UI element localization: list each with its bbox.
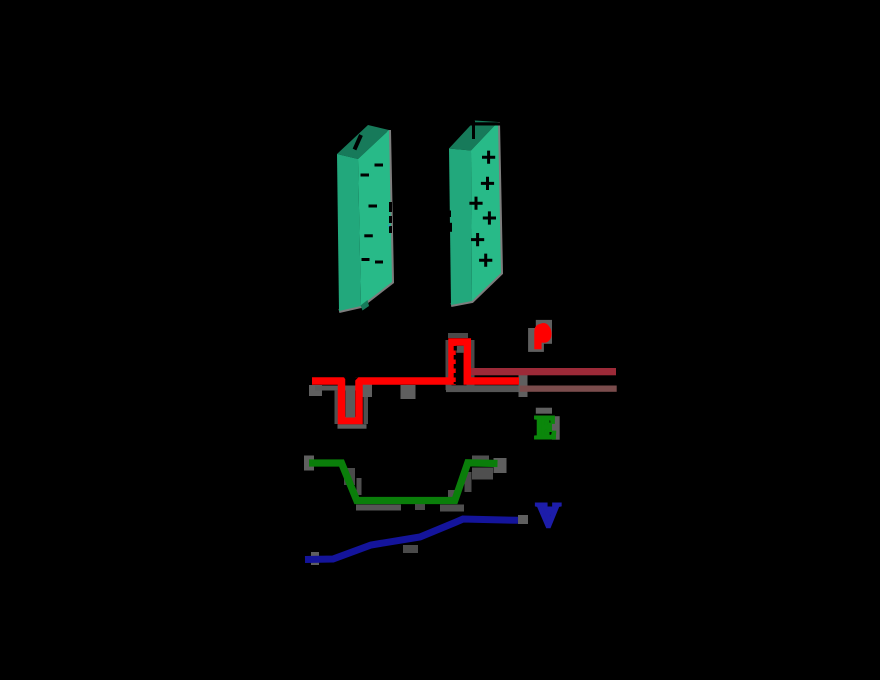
left plate bottom sliver xyxy=(361,300,370,311)
gray patch pulse left flank xyxy=(446,340,452,390)
svg-text:E: E xyxy=(535,409,556,445)
gray patch green slope left xyxy=(344,468,355,485)
gray above green right flat xyxy=(472,456,489,461)
black dash c on left plate edge xyxy=(389,226,392,233)
gray patch pulse right flank xyxy=(467,340,475,390)
gray box behind rho label upper xyxy=(536,320,552,344)
black dash a on left plate edge xyxy=(389,202,392,212)
minus sign 2 xyxy=(361,174,370,177)
black fragment b on right plate strip xyxy=(447,223,452,232)
gray patch blue mid xyxy=(403,545,418,553)
gray trough left flank xyxy=(335,390,339,424)
plus sign 6 xyxy=(479,254,492,267)
minus sign 6 xyxy=(375,261,383,264)
left plate top face xyxy=(337,125,389,159)
pulse interior gray cap xyxy=(456,346,464,353)
left plate top black mark xyxy=(355,135,362,150)
right plate side strip xyxy=(449,149,472,306)
plus sign 5 xyxy=(471,233,484,246)
gray box above E label xyxy=(536,408,552,414)
svg-text:ρ: ρ xyxy=(534,312,552,349)
trough interior gray xyxy=(346,386,356,418)
gray patch blue end xyxy=(518,515,528,524)
plus sign 1 xyxy=(482,151,495,164)
gray below green bottom right xyxy=(440,505,464,512)
right plate halo xyxy=(451,122,501,305)
pulse dashed black line xyxy=(454,346,457,384)
minus sign 1 xyxy=(375,164,384,167)
E label underlay xyxy=(538,417,550,436)
gray patch green bottom left xyxy=(356,505,401,511)
gray left of green ascent xyxy=(448,490,455,503)
gray patch after pulse under baseline xyxy=(446,385,520,392)
black dash b on left plate edge xyxy=(389,216,392,223)
minus sign 4 xyxy=(364,234,373,237)
rho axis dark line upper xyxy=(471,368,616,375)
right plate top horizontal black line xyxy=(469,122,509,125)
gray box right of E label xyxy=(552,416,560,440)
V label underlay xyxy=(541,507,555,521)
gray band under baseline left xyxy=(315,386,366,391)
gray box behind rho label lower xyxy=(528,328,544,352)
left plate halo xyxy=(339,130,392,311)
gray right of green descent xyxy=(357,478,362,495)
gray patch green bottom mid xyxy=(415,504,425,510)
left plate side strip xyxy=(337,154,361,311)
minus sign 3 xyxy=(369,205,378,208)
right plate top vertical black line xyxy=(472,121,475,139)
svg-text:V: V xyxy=(536,497,561,534)
gray patch pulse top xyxy=(448,333,468,338)
gray patch mid baseline xyxy=(360,384,372,397)
rho curve xyxy=(312,342,519,421)
minus sign 5 xyxy=(362,258,370,261)
right plate top face xyxy=(449,121,498,151)
gray patch red start xyxy=(309,385,322,396)
rho label underlay xyxy=(537,323,551,340)
trough top black notch xyxy=(344,377,359,384)
gray patch green end xyxy=(494,458,507,473)
E curve xyxy=(309,463,498,501)
right plate front face xyxy=(471,122,501,301)
plus sign 4 xyxy=(483,211,496,224)
gray below green right flat xyxy=(472,468,493,480)
rho axis dark line lower xyxy=(520,386,617,392)
black fragment a on right plate strip xyxy=(447,211,451,218)
gray patch red end xyxy=(519,372,528,397)
plus sign 2 xyxy=(481,177,494,190)
gray patch big center xyxy=(401,385,416,399)
gray patch green start xyxy=(304,456,314,471)
plus sign 3 xyxy=(469,197,482,210)
left plate front face xyxy=(358,130,392,306)
gray trough right flank xyxy=(364,390,369,424)
blue speck in gap xyxy=(388,225,390,227)
gray patch blue start xyxy=(311,552,319,565)
V curve xyxy=(305,519,518,560)
gray patch green slope right xyxy=(465,472,472,492)
gray patch under trough xyxy=(338,424,367,429)
